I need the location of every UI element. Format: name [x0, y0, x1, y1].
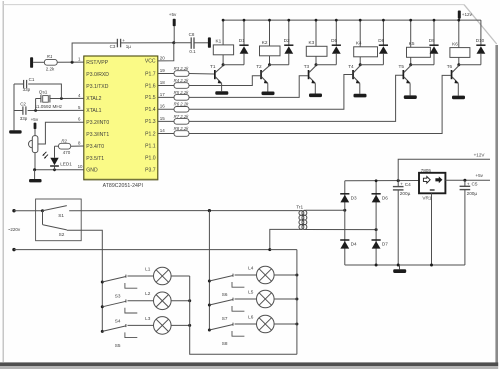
wire switch to lamp L4 — [235, 274, 257, 276]
svg-text:R4 2.2k: R4 2.2k — [174, 78, 190, 83]
power +12v terminal top right — [458, 11, 461, 21]
diode D10 flyback — [0, 0, 1, 1]
wire K2 coil to T2 collector — [269, 56, 271, 65]
svg-text:R7 2.2k: R7 2.2k — [174, 114, 190, 119]
node collector junction T2 — [268, 63, 271, 66]
ground T5 emitter — [404, 95, 417, 99]
wire switch to lamp L2 — [128, 300, 154, 302]
capacitor C3 — [117, 39, 120, 48]
svg-text:P3.4/T0: P3.4/T0 — [86, 144, 104, 150]
node crystal to XTAL1 — [34, 109, 37, 112]
svg-text:+: + — [122, 38, 125, 43]
svg-text:S5: S5 — [115, 343, 121, 348]
wire +5v terminal down — [173, 26, 175, 43]
wire ground stub supply — [399, 265, 401, 269]
svg-text:T5: T5 — [399, 64, 405, 69]
wire RST junction up to C3 — [72, 43, 117, 62]
switch S1 — [41, 206, 67, 213]
wire +5v node down to VCC — [158, 43, 174, 61]
svg-text:R5 2.2k: R5 2.2k — [174, 90, 190, 95]
capacitor C8 — [174, 37, 208, 48]
diode D1 symbol — [239, 45, 248, 64]
svg-text:L1: L1 — [145, 266, 151, 271]
node mains neutral terminal — [12, 248, 15, 251]
wire return bus group1 — [190, 276, 297, 354]
wire +5v to IR module — [34, 129, 36, 136]
svg-text:K3: K3 — [309, 40, 315, 45]
node IR gnd junction — [33, 168, 36, 171]
wire K6 coil to T6 collector — [458, 57, 460, 64]
svg-text:GND: GND — [86, 168, 98, 174]
diode D10 symbol — [476, 45, 485, 64]
wire K5 coil to T5 collector — [410, 57, 412, 64]
switch box S1 S2 — [36, 199, 82, 241]
ground IR — [29, 179, 42, 182]
svg-text:P3.5/T1: P3.5/T1 — [86, 156, 104, 162]
svg-text:2.2k: 2.2k — [46, 67, 55, 72]
diode D2 symbol — [284, 45, 293, 64]
svg-text:D8: D8 — [378, 38, 384, 43]
node return bus L6 — [295, 323, 298, 326]
svg-text:14: 14 — [160, 128, 166, 133]
svg-text:AT89C2051-24PI: AT89C2051-24PI — [103, 183, 143, 189]
svg-text:19: 19 — [160, 68, 166, 73]
node neutral junction — [268, 248, 271, 251]
svg-text:Qs1: Qs1 — [39, 89, 48, 94]
svg-text:R6 2.2k: R6 2.2k — [174, 102, 190, 107]
svg-text:+: + — [400, 182, 403, 187]
lamp L2 — [154, 292, 172, 310]
node D6 plus rail — [375, 179, 378, 182]
ground crystal — [9, 130, 22, 133]
svg-text:R2: R2 — [61, 138, 67, 143]
svg-text:+: + — [467, 181, 470, 186]
LED LED1 — [50, 146, 59, 170]
relay K6 — [450, 48, 470, 58]
svg-text:D5: D5 — [331, 38, 337, 43]
wire LED to R2 — [55, 145, 59, 147]
svg-text:R1: R1 — [47, 54, 53, 59]
wire K3 coil to T3 collector — [315, 56, 317, 64]
node collector junction T1 — [222, 63, 225, 66]
svg-text:S2: S2 — [59, 232, 65, 237]
node C4 bottom rail — [397, 264, 400, 267]
wire R7 to T5 base — [189, 75, 403, 121]
wire rail to K2 coil — [269, 20, 271, 46]
wire rail to K4 coil — [359, 20, 361, 47]
node RST junction — [71, 61, 74, 64]
wire IR output to P3.2 — [38, 122, 84, 144]
wire S1 link to S2 — [42, 211, 44, 225]
wire switch to lamp L1 — [128, 275, 154, 277]
svg-text:P1.3: P1.3 — [145, 119, 156, 125]
svg-text:P1.2: P1.2 — [145, 131, 156, 137]
svg-text:S1: S1 — [58, 213, 64, 218]
regulator VR1 7805 — [419, 173, 445, 194]
svg-text:LED1: LED1 — [60, 161, 72, 166]
svg-text:18: 18 — [160, 80, 166, 85]
wire lamp L5 to return bus — [274, 298, 297, 300]
diode D4 — [340, 240, 349, 249]
transistor T6 — [451, 65, 459, 96]
wire bridge left column — [344, 181, 346, 265]
relay K1 — [213, 45, 233, 55]
svg-text:T2: T2 — [256, 64, 262, 69]
wire neutral junction riser — [270, 229, 299, 249]
ground supply — [393, 269, 406, 273]
lamp L6 — [257, 315, 275, 333]
wire mains live left — [14, 210, 43, 212]
wire R6 to T4 base — [189, 75, 352, 110]
relay K2 — [260, 46, 281, 56]
wire mains neutral — [14, 249, 270, 251]
resistor R3 — [174, 71, 189, 77]
crystal Qs1 — [36, 95, 62, 103]
wire lamp L1 to return bus — [171, 275, 190, 277]
capacitor C4 — [393, 181, 404, 265]
svg-text:15: 15 — [160, 116, 166, 121]
diode D6 — [372, 194, 381, 203]
svg-text:C4: C4 — [405, 182, 411, 187]
diode D3 — [340, 194, 349, 203]
power +5v terminal top — [173, 19, 176, 27]
wire secondary bottom — [306, 229, 376, 231]
wire D10 anode to collector junction — [459, 64, 481, 66]
svg-text:P1.5: P1.5 — [145, 95, 156, 101]
wire R4 to T2 base — [189, 76, 260, 86]
wire bridge plus rail — [345, 180, 419, 182]
svg-text:11.0592 MHz: 11.0592 MHz — [35, 104, 63, 109]
svg-text:P3.1/TXD: P3.1/TXD — [86, 84, 108, 90]
switch S8 — [208, 323, 245, 337]
node C5 junction — [463, 179, 466, 182]
wire VR1 output — [445, 179, 490, 181]
wire rectifier bottom rail — [345, 264, 465, 266]
wire C1 branch — [28, 84, 61, 99]
svg-text:+5v: +5v — [169, 12, 177, 17]
svg-text:VR1: VR1 — [422, 195, 432, 200]
svg-text:D4: D4 — [351, 242, 357, 247]
svg-text:D1: D1 — [239, 38, 245, 43]
svg-text:1µ: 1µ — [126, 44, 132, 49]
ground T4 emitter — [354, 94, 367, 98]
svg-text:K4: K4 — [356, 41, 362, 46]
svg-text:C3: C3 — [110, 44, 116, 49]
transistor T4 — [352, 65, 360, 94]
transistor T2 — [260, 65, 269, 92]
svg-text:T1: T1 — [210, 64, 216, 69]
wire primary bottom — [299, 228, 300, 230]
svg-text:+12V: +12V — [474, 153, 486, 158]
svg-text:RST/VPP: RST/VPP — [86, 60, 108, 66]
svg-text:S6: S6 — [222, 292, 228, 297]
resistor R2 — [59, 143, 71, 149]
ground T1 emitter — [215, 91, 228, 95]
wire rail to K1 coil — [222, 20, 224, 45]
svg-text:10: 10 — [78, 164, 83, 169]
svg-text:D2: D2 — [284, 38, 290, 43]
svg-text:XTAL2: XTAL2 — [86, 96, 101, 102]
node return bus L3 — [188, 324, 191, 327]
wire XTAL2 stub — [61, 97, 83, 99]
node bridge left mid — [343, 209, 346, 212]
node C4 plus rail — [397, 179, 400, 182]
node XTAL2 junction C1 — [60, 97, 63, 100]
wire return bus group2 — [296, 250, 298, 355]
svg-text:XTAL1: XTAL1 — [86, 108, 101, 114]
switch S6 — [208, 274, 245, 288]
ground bar right of C8 — [208, 37, 211, 47]
wire P1.4 stub — [158, 108, 174, 110]
svg-text:VCC: VCC — [145, 59, 156, 65]
svg-text:200µ: 200µ — [467, 191, 478, 196]
relay K3 — [306, 46, 327, 56]
resistor R1 — [44, 59, 57, 65]
wire +12v relay rail — [222, 19, 481, 21]
wire R1 to pin1 RST — [57, 61, 84, 63]
resistor R6 — [174, 107, 189, 113]
node return bus L5 — [295, 298, 298, 301]
wire lamp L2 to return bus — [171, 300, 190, 302]
switch S5 — [101, 324, 138, 338]
svg-text:16: 16 — [160, 104, 166, 109]
wire rail to K6 coil — [458, 20, 460, 47]
node return bus L2 — [188, 299, 191, 302]
power +5v terminal IR — [34, 123, 37, 129]
svg-text:K1: K1 — [216, 39, 222, 44]
svg-text:D9: D9 — [429, 38, 435, 43]
wire +12v tap — [398, 159, 490, 180]
svg-text:D3: D3 — [351, 195, 357, 200]
wire K1 coil to T1 collector — [222, 55, 224, 65]
microcontroller U1 AT89C2051-24PI — [84, 56, 158, 180]
svg-text:D6: D6 — [382, 195, 388, 200]
wire D9 anode to collector junction — [411, 64, 434, 66]
wire D8 anode to collector junction — [360, 64, 383, 66]
node collector junction T6 — [457, 63, 460, 66]
wire lamp L3 to return bus — [171, 324, 190, 326]
lamp L4 — [257, 266, 275, 284]
resistor R5 — [174, 95, 189, 101]
svg-text:L2: L2 — [145, 291, 151, 296]
wire bridge right column — [375, 181, 377, 265]
wire lamp L6 to return bus — [274, 323, 297, 325]
diode D2 flyback — [287, 19, 290, 46]
wire P1.5 stub — [158, 96, 174, 98]
wire crystal left leg down — [35, 99, 37, 111]
wire P1.2 stub — [158, 133, 174, 135]
resistor R8 — [174, 131, 189, 137]
svg-text:S3: S3 — [115, 294, 121, 299]
relay K5 — [407, 47, 431, 57]
switch S3 — [101, 275, 138, 289]
svg-text:P1.4: P1.4 — [145, 107, 156, 113]
transistor T5 — [403, 65, 411, 96]
terminal bar left of R1 — [30, 57, 33, 68]
svg-text:L3: L3 — [145, 316, 151, 321]
switch S7 — [208, 298, 245, 312]
wire rail to K3 coil — [315, 20, 317, 46]
svg-text:P1.7: P1.7 — [145, 71, 156, 77]
svg-text:Tr1: Tr1 — [296, 205, 303, 210]
resistor R4 — [174, 83, 189, 89]
diode D5 flyback — [335, 19, 338, 46]
svg-text:P1.0: P1.0 — [145, 155, 156, 161]
ground T3 emitter — [309, 94, 322, 98]
resistor R7 — [174, 119, 189, 125]
svg-text:S7: S7 — [222, 316, 228, 321]
svg-text:S4: S4 — [115, 318, 121, 323]
LED1 arrows — [42, 152, 48, 159]
svg-text:33p: 33p — [23, 87, 31, 92]
transistor T3 — [308, 65, 316, 94]
svg-text:0.1: 0.1 — [189, 49, 196, 54]
svg-text:+5v: +5v — [475, 173, 483, 178]
svg-text:K6: K6 — [452, 41, 458, 46]
diode D9 symbol — [429, 45, 438, 64]
wire D5 anode to collector junction — [316, 64, 336, 66]
wire secondary top — [306, 209, 345, 211]
svg-text:+5v: +5v — [31, 117, 39, 122]
wire S2 out to lamp bus 1 — [67, 230, 103, 331]
svg-text:R8 2.2k: R8 2.2k — [174, 126, 190, 131]
wire ground leg crystal — [13, 84, 15, 130]
wire lamp bus 2 from live — [208, 209, 211, 212]
wire K4 coil to T4 collector — [359, 57, 361, 65]
wire gnd junction down — [34, 170, 36, 179]
capacitor C1 — [14, 80, 27, 88]
svg-text:P1.6: P1.6 — [145, 83, 156, 89]
wire R8 to T6 base — [189, 75, 451, 133]
node bridge right mid — [375, 228, 378, 231]
svg-text:D7: D7 — [382, 242, 388, 247]
wire C3 to +5v node — [121, 42, 174, 44]
node +5v junction — [172, 41, 175, 44]
svg-text:P1.1: P1.1 — [145, 143, 156, 149]
node collector junction T5 — [409, 63, 412, 66]
svg-text:R3 2.2k: R3 2.2k — [174, 66, 190, 71]
svg-text:~220v: ~220v — [8, 227, 21, 232]
svg-text:D10: D10 — [476, 38, 485, 43]
svg-text:P3.7: P3.7 — [145, 167, 156, 173]
diode D7 — [372, 240, 381, 249]
svg-text:L5: L5 — [248, 289, 254, 294]
switch S2 — [43, 225, 67, 230]
svg-text:C5: C5 — [472, 182, 478, 187]
transistor T1 — [214, 65, 223, 92]
svg-text:470: 470 — [63, 150, 71, 155]
svg-text:L4: L4 — [248, 265, 254, 270]
wire bar to R1 — [33, 61, 44, 63]
wire VR1 ground leg — [431, 193, 433, 265]
diode D8 flyback — [382, 19, 385, 46]
wire GND pin stub — [35, 169, 84, 171]
node mains live terminal — [12, 209, 15, 212]
svg-text:17: 17 — [160, 92, 166, 97]
svg-text:7805: 7805 — [421, 168, 432, 173]
wire switch to lamp L5 — [235, 298, 257, 300]
wire R5 to T3 base — [189, 76, 308, 98]
pin numbers U1 — [78, 55, 166, 169]
wire IR module down to gnd wire — [34, 153, 36, 170]
IR receiver module — [28, 136, 37, 153]
node collector junction T4 — [359, 63, 362, 66]
svg-text:P3.0/RXD: P3.0/RXD — [86, 72, 109, 78]
wire XTAL1 stub — [28, 109, 84, 111]
node LED gnd junction — [53, 168, 56, 171]
lamp L5 — [257, 290, 275, 308]
svg-text:33p: 33p — [20, 116, 28, 121]
svg-text:+12v: +12v — [462, 12, 473, 17]
capacitor C2 — [14, 106, 26, 114]
svg-text:P3.3/INT1: P3.3/INT1 — [86, 132, 109, 138]
svg-text:T6: T6 — [447, 64, 453, 69]
svg-text:20: 20 — [160, 55, 166, 60]
svg-text:S8: S8 — [222, 341, 228, 346]
wire switch to lamp L3 — [128, 324, 154, 326]
svg-text:K2: K2 — [262, 40, 268, 45]
node collector junction T3 — [315, 63, 318, 66]
svg-text:T3: T3 — [304, 64, 310, 69]
diode D1 flyback — [243, 19, 246, 46]
svg-text:K5: K5 — [409, 41, 415, 46]
wire rail to K5 coil — [410, 20, 412, 47]
lamp L1 — [154, 267, 172, 285]
wire switch to lamp L6 — [235, 323, 257, 325]
svg-text:C8: C8 — [189, 32, 195, 37]
diode D8 symbol — [379, 45, 388, 64]
diode D5 symbol — [332, 45, 341, 64]
svg-text:200µ: 200µ — [400, 191, 411, 196]
lamp L3 — [154, 317, 172, 335]
wire lamp L4 to return bus — [274, 274, 297, 276]
wire neutral to return bus — [270, 249, 297, 251]
switch S4 — [101, 299, 138, 313]
ground T6 emitter — [452, 96, 465, 100]
node return bus L4 — [295, 274, 298, 277]
ground T2 emitter — [262, 92, 275, 96]
capacitor C5 — [460, 180, 471, 265]
wire R3 to T1 base — [189, 73, 214, 76]
svg-text:C2: C2 — [20, 101, 26, 106]
wire P1.7 stub — [158, 73, 174, 75]
transformer Tr1 — [299, 210, 307, 229]
svg-text:T4: T4 — [348, 64, 354, 69]
wire R2 to P3.4 — [71, 145, 84, 147]
node VR1 bottom rail — [430, 264, 433, 267]
node D7 bottom rail — [375, 264, 378, 267]
wire P1.6 stub — [158, 85, 174, 87]
relay K4 — [354, 47, 378, 57]
diode D9 flyback — [433, 19, 436, 46]
wire D2 anode to collector junction — [270, 64, 289, 66]
wire P1.3 stub — [158, 120, 174, 122]
svg-text:P3.2/INT0: P3.2/INT0 — [86, 120, 109, 126]
svg-text:L6: L6 — [248, 314, 254, 319]
wire mains live right — [69, 210, 299, 212]
wire D1 anode to collector junction — [223, 64, 244, 66]
svg-text:C1: C1 — [29, 77, 35, 82]
wire rail end down to D10 — [480, 20, 482, 45]
